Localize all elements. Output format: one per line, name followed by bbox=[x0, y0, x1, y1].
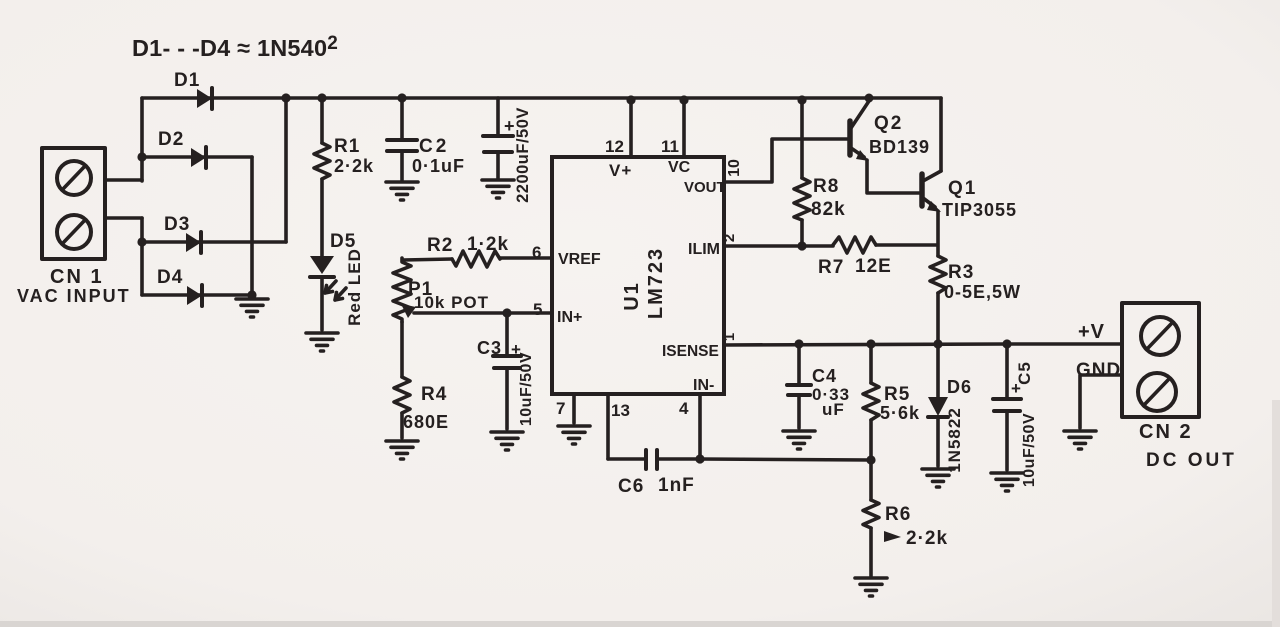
potentiometer P1 bbox=[393, 258, 552, 322]
resistor R7 bbox=[724, 237, 937, 253]
svg-text:1: 1 bbox=[721, 333, 738, 341]
svg-text:V+: V+ bbox=[609, 161, 632, 180]
resistor R8 bbox=[794, 100, 810, 246]
svg-text:ISENSE: ISENSE bbox=[662, 343, 719, 360]
ground C3 bbox=[491, 432, 523, 450]
svg-text:R7: R7 bbox=[818, 257, 844, 278]
svg-text:+: + bbox=[504, 116, 515, 136]
svg-text:VC: VC bbox=[668, 159, 691, 176]
svg-text:4: 4 bbox=[679, 399, 689, 418]
capacitor C4 bbox=[787, 344, 811, 428]
ground pin7 bbox=[558, 426, 590, 444]
wire D2 branch bbox=[142, 155, 252, 159]
capacitor C6 bbox=[608, 450, 700, 469]
svg-text:10: 10 bbox=[726, 159, 743, 177]
wire D3 up to top bus bbox=[284, 98, 288, 242]
svg-text:IN+: IN+ bbox=[557, 309, 582, 326]
node pin11 bus bbox=[679, 95, 688, 104]
resistor R5 bbox=[863, 344, 879, 460]
resistor R1 bbox=[314, 98, 330, 256]
svg-text:Q2: Q2 bbox=[874, 113, 903, 134]
svg-text:R2: R2 bbox=[427, 235, 453, 256]
svg-text:R4: R4 bbox=[421, 384, 447, 405]
diode D4 bbox=[187, 285, 202, 306]
node D3-bus junction bbox=[281, 93, 290, 102]
svg-text:2: 2 bbox=[721, 234, 738, 242]
ground GND net bbox=[1064, 431, 1096, 449]
connector CN2 bbox=[1122, 303, 1199, 417]
svg-text:+V: +V bbox=[1078, 321, 1105, 343]
wire output rail ISENSE bbox=[724, 344, 1122, 345]
wire left bridge vertical up bbox=[140, 98, 144, 181]
wire CN1 bottom to bridge bbox=[105, 216, 142, 220]
svg-text:0·1uF: 0·1uF bbox=[412, 156, 465, 176]
svg-text:DC OUT: DC OUT bbox=[1146, 450, 1237, 471]
svg-text:680E: 680E bbox=[403, 412, 449, 432]
ground D5 bbox=[306, 333, 338, 351]
diode D3 bbox=[186, 232, 201, 253]
svg-text:1nF: 1nF bbox=[658, 475, 695, 496]
svg-text:R8: R8 bbox=[813, 176, 839, 197]
svg-text:0-5E,5W: 0-5E,5W bbox=[944, 282, 1021, 302]
svg-text:2·2k: 2·2k bbox=[334, 156, 374, 176]
connector CN1 bbox=[42, 148, 105, 259]
svg-text:C3: C3 bbox=[477, 338, 502, 358]
label R6 pointer bbox=[884, 531, 901, 542]
node R8 ILIM junction bbox=[797, 241, 806, 250]
svg-text:Q1: Q1 bbox=[948, 178, 977, 199]
node C5 top bbox=[1002, 339, 1011, 348]
capacitor C2 bbox=[387, 98, 417, 180]
ground C5 bbox=[991, 473, 1023, 491]
svg-text:13: 13 bbox=[611, 401, 630, 420]
svg-text:82k: 82k bbox=[811, 199, 846, 220]
svg-text:C5: C5 bbox=[1015, 361, 1034, 385]
svg-text:2200uF/50V: 2200uF/50V bbox=[514, 107, 532, 203]
LED D5 bbox=[310, 256, 346, 330]
pin 12 wire bbox=[629, 100, 633, 157]
svg-text:2·2k: 2·2k bbox=[906, 528, 948, 549]
node pin12 bus bbox=[626, 95, 635, 104]
svg-text:C6: C6 bbox=[618, 476, 644, 497]
wire C6 junction to R5 bbox=[700, 459, 871, 460]
wire GND net bbox=[1080, 375, 1122, 428]
resistor R2 bbox=[403, 251, 552, 267]
pin 11 wire bbox=[682, 100, 686, 157]
node C4 top bbox=[794, 339, 803, 348]
node pin4 C6 junction bbox=[695, 454, 704, 463]
node R5 R6 junction bbox=[866, 455, 875, 464]
pin 7 wire bbox=[572, 394, 576, 423]
diode D6 bbox=[928, 344, 948, 466]
svg-text:TIP3055: TIP3055 bbox=[942, 200, 1017, 220]
svg-text:10uF/50V: 10uF/50V bbox=[1021, 413, 1038, 487]
wire D2 down to bottom rail bbox=[250, 157, 254, 295]
svg-text:CN 1: CN 1 bbox=[50, 266, 104, 288]
svg-text:GND: GND bbox=[1076, 360, 1121, 381]
ground D6 bbox=[922, 469, 954, 487]
svg-text:VAC INPUT: VAC INPUT bbox=[17, 286, 131, 306]
svg-text:C2: C2 bbox=[419, 136, 449, 157]
ground bridge bbox=[236, 299, 268, 317]
svg-text:LM723: LM723 bbox=[645, 247, 667, 319]
svg-text:CN 2: CN 2 bbox=[1139, 421, 1193, 443]
svg-text:12: 12 bbox=[605, 137, 624, 156]
node D2 tap bbox=[137, 152, 146, 161]
svg-text:C4: C4 bbox=[812, 366, 837, 386]
svg-text:D3: D3 bbox=[164, 214, 190, 235]
svg-text:R5: R5 bbox=[884, 384, 910, 405]
svg-text:BD139: BD139 bbox=[869, 137, 930, 157]
node Q2 collector bus bbox=[865, 94, 874, 103]
ground R4 bbox=[386, 441, 418, 459]
svg-text:R3: R3 bbox=[948, 262, 974, 283]
transistor Q2 bbox=[850, 101, 920, 193]
svg-text:IN-: IN- bbox=[693, 377, 714, 394]
svg-text:12E: 12E bbox=[855, 256, 892, 277]
svg-text:Red LED: Red LED bbox=[345, 248, 364, 326]
svg-text:U1: U1 bbox=[621, 281, 643, 311]
node bridge ground junction bbox=[247, 290, 256, 299]
svg-text:11: 11 bbox=[661, 137, 679, 156]
capacitor C5 bbox=[993, 344, 1021, 470]
capacitor C1 2200uF bbox=[483, 98, 513, 178]
resistor R6 bbox=[863, 460, 879, 576]
svg-text:10k POT: 10k POT bbox=[414, 293, 489, 312]
wire D4 branch bbox=[142, 293, 252, 297]
ground R6 bbox=[855, 578, 887, 596]
ground C4 bbox=[783, 431, 815, 449]
capacitor C3 bbox=[493, 313, 521, 429]
transistor Q1 bbox=[922, 98, 941, 256]
resistor R4 bbox=[394, 322, 410, 438]
node R8 top bbox=[797, 95, 806, 104]
ground C2 bbox=[386, 182, 418, 200]
title note D1...D4 = 1N5402 bbox=[132, 33, 338, 61]
svg-text:10uF/50V: 10uF/50V bbox=[518, 352, 535, 426]
svg-text:7: 7 bbox=[556, 399, 565, 418]
svg-text:5: 5 bbox=[533, 300, 542, 319]
svg-text:1N5822: 1N5822 bbox=[945, 407, 964, 473]
pin 4 wire bbox=[698, 394, 702, 459]
svg-text:D6: D6 bbox=[947, 377, 972, 397]
wire CN1 top to bridge bbox=[105, 178, 142, 182]
node R1 top bbox=[317, 93, 326, 102]
ground C1 bbox=[482, 180, 514, 198]
svg-text:D1: D1 bbox=[174, 70, 200, 91]
node R5 top bbox=[866, 339, 875, 348]
diode D1 bbox=[197, 88, 212, 109]
svg-text:D2: D2 bbox=[158, 129, 184, 150]
svg-text:D1- - -D4 ≈ 1N5402: D1- - -D4 ≈ 1N5402 bbox=[132, 33, 338, 61]
wire D3 branch bbox=[142, 240, 286, 244]
svg-text:R1: R1 bbox=[334, 136, 360, 157]
svg-text:R6: R6 bbox=[885, 504, 911, 525]
wire VOUT pin10 bbox=[724, 139, 848, 182]
node D3 tap bbox=[137, 237, 146, 246]
wire left lower vertical bbox=[140, 218, 144, 295]
op-amp U1 LM723 body bbox=[552, 157, 724, 394]
node D6 R3 junction bbox=[933, 339, 942, 348]
svg-text:5·6k: 5·6k bbox=[880, 403, 920, 423]
node C2 top bbox=[397, 93, 406, 102]
svg-text:D4: D4 bbox=[157, 267, 183, 288]
svg-text:VREF: VREF bbox=[558, 251, 601, 268]
svg-text:ILIM: ILIM bbox=[688, 241, 720, 258]
pin 13 wire bbox=[606, 394, 610, 459]
svg-text:uF: uF bbox=[822, 400, 845, 419]
svg-text:VOUT: VOUT bbox=[684, 179, 726, 196]
diode D2 bbox=[191, 147, 206, 168]
node C3 tap bbox=[502, 308, 511, 317]
wire top bus bbox=[142, 96, 941, 100]
resistor R3 bbox=[930, 256, 946, 344]
svg-text:1·2k: 1·2k bbox=[467, 234, 509, 255]
